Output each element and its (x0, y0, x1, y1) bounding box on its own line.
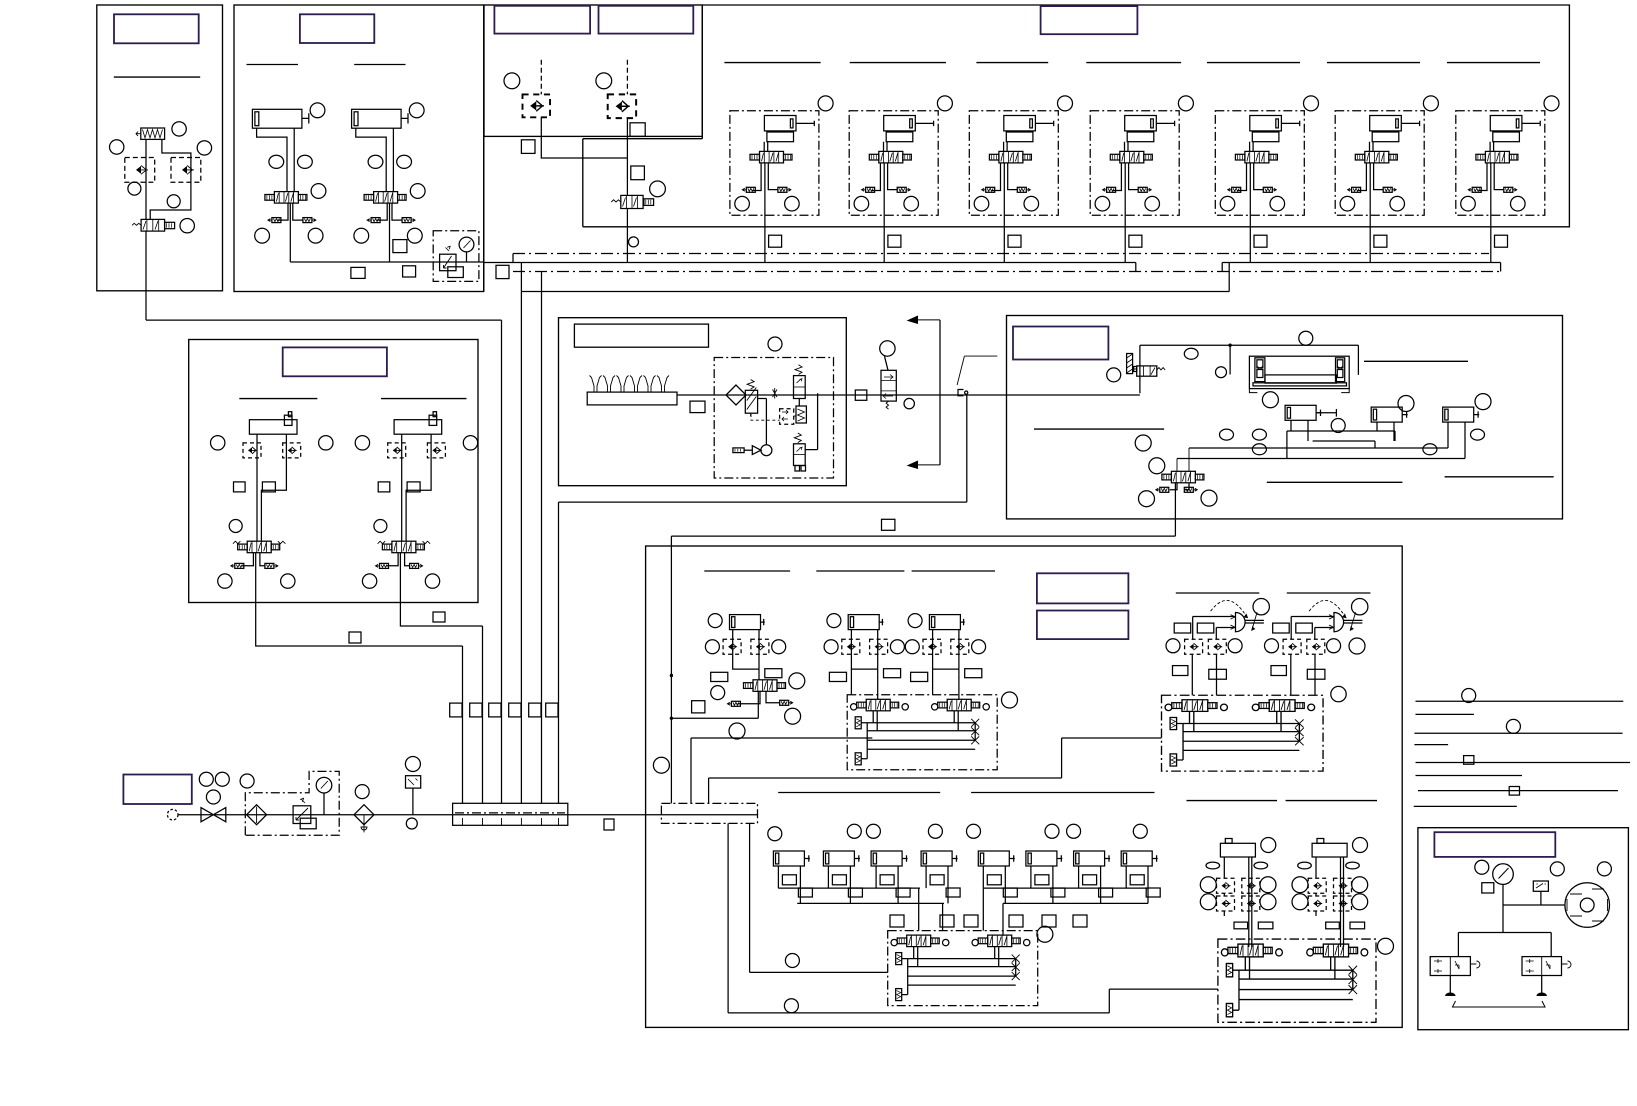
supply line from box3 frame down to bus (483, 136, 485, 291)
vacuum unit V1 (1166, 599, 1269, 696)
row cylinder R2 (823, 851, 860, 866)
slide rail (1253, 383, 1347, 386)
balloon (1378, 938, 1394, 954)
square marker (1482, 883, 1494, 893)
square marker (403, 266, 416, 277)
wire valve output (145, 231, 147, 320)
legend row 1 (1416, 700, 1624, 702)
left quad piping (778, 866, 926, 888)
legend row 3 (1414, 732, 1622, 734)
arrow lower (908, 461, 940, 469)
regulator (293, 806, 311, 824)
balloon (1107, 368, 1121, 382)
vertical unit W1 (1200, 838, 1276, 943)
speed controller check box right (171, 158, 201, 183)
wire valve output to bus (626, 209, 628, 263)
title block middle-center box (black) (574, 324, 708, 347)
label line box1 (114, 76, 200, 78)
shut-off valve (201, 808, 226, 822)
roller lever valve (1137, 366, 1157, 376)
tap drop line (559, 395, 967, 502)
cylinder unit U7 (1456, 96, 1559, 263)
valve V1 (141, 219, 165, 231)
feed line up and across (1140, 345, 1359, 393)
nozzle manifold block (587, 392, 677, 405)
middle-center box frame (559, 318, 847, 486)
balloon (110, 140, 124, 154)
slide feed line (671, 483, 1175, 536)
cylinder unit U2 (849, 96, 952, 263)
cylinder unit U4 (1090, 96, 1193, 263)
square marker (496, 265, 509, 278)
valve left (1430, 957, 1470, 976)
spring return actuator A1 (141, 128, 165, 139)
bottom big box frame (646, 546, 1403, 1027)
small manifold dash-dot box (661, 803, 757, 823)
legend row 2 (1416, 713, 1474, 715)
riser R1 (462, 646, 464, 803)
check unit right (608, 94, 636, 118)
wire right check down (626, 117, 628, 195)
cylinder unit U1 (730, 96, 833, 263)
gauge (316, 777, 332, 793)
balloon (405, 757, 420, 772)
lower feed middle (750, 823, 888, 972)
T1 valve output (757, 691, 759, 718)
cylinder piping (1291, 420, 1465, 458)
square marker (393, 240, 407, 253)
square marker (433, 612, 445, 622)
row cylinder R5 (978, 851, 1015, 866)
square markers (890, 915, 904, 927)
branch to trio valve (671, 717, 758, 719)
check unit left (523, 94, 551, 117)
label lines middle-right box (1034, 361, 1554, 482)
balloon (1184, 348, 1198, 359)
station box 3 frame (484, 5, 702, 136)
filter (726, 385, 746, 405)
bus solid line segment 1 (484, 262, 1136, 264)
balloon (206, 790, 220, 804)
bus boundary dash-dot upper (513, 253, 1489, 255)
square marker (692, 701, 705, 713)
middle-left box frame (189, 340, 478, 603)
T2 drops to manifold (851, 669, 877, 699)
pilot dashed box (780, 409, 794, 424)
square marker (631, 166, 645, 180)
junction dots (670, 717, 673, 720)
nozzles (590, 376, 602, 393)
wire actuator right branch (150, 139, 191, 219)
balloon (197, 141, 211, 155)
wire M2 output (400, 603, 482, 627)
small cylinder unit T3 (905, 614, 985, 682)
balloons around cylinders (1262, 392, 1278, 408)
bus solid line lower (521, 291, 1229, 293)
station box 2 frame (234, 5, 484, 292)
square marker (521, 140, 535, 154)
label lines bottom box trio (704, 570, 995, 572)
riser R4 (520, 292, 522, 804)
title block bottom-right box (1434, 832, 1555, 857)
cylinder C2 (1371, 407, 1408, 422)
cylinder unit U6 (1335, 96, 1438, 263)
small cylinder unit T1 (705, 614, 785, 682)
lower valve (794, 444, 806, 466)
title block box3 left (494, 6, 590, 34)
balloons around T1 valve (711, 686, 725, 700)
exhaust pads (1450, 976, 1541, 995)
balloon (504, 73, 520, 89)
cylinder circuit M2 (355, 412, 478, 603)
lubricator (354, 805, 374, 825)
regulator dash-dot box (433, 231, 479, 282)
vacuum unit V2 (1265, 599, 1368, 696)
relief valve (794, 376, 806, 399)
lower feed left (728, 823, 1218, 1013)
filter (247, 805, 267, 825)
wire actuator to valve (145, 139, 147, 219)
cylinder circuit M1 (211, 412, 334, 603)
balloon (729, 723, 745, 739)
bus verticals (513, 254, 1501, 292)
middle-right box frame (1007, 316, 1563, 519)
balloon small (629, 237, 639, 247)
main supply line (178, 814, 758, 816)
title block box1 (114, 14, 199, 43)
pump motor (1565, 883, 1610, 928)
balloons (1037, 926, 1053, 942)
balloons (1149, 458, 1165, 474)
pressure switch (1533, 881, 1548, 891)
valve right (1522, 957, 1562, 976)
regulator (440, 254, 456, 271)
arrow upper (908, 316, 940, 324)
cylinder unit U3 (969, 96, 1072, 263)
title block bottom box upper (1037, 573, 1129, 603)
legend row 6 (1416, 775, 1523, 777)
row cylinder R4 (921, 851, 958, 866)
slide unit frame (1249, 356, 1349, 388)
title block box3 right (599, 6, 694, 34)
riser R5 (541, 272, 543, 804)
square marker (351, 267, 365, 278)
T3 drops to manifold (933, 669, 959, 699)
gauge (459, 237, 474, 252)
balloon (180, 219, 194, 233)
arrow trunk (939, 320, 941, 465)
restrictor mark on line (773, 388, 778, 399)
label lines bottom box right duo (1187, 800, 1378, 802)
balloon (240, 774, 254, 788)
supply valve (1162, 471, 1204, 483)
title block bottom box lower (1037, 611, 1129, 640)
station box 1 frame (97, 5, 223, 291)
drops to manifold (1249, 942, 1344, 947)
balloon (167, 195, 180, 208)
FRL dash-dot box (245, 771, 339, 835)
cylinder circuit B2 (352, 103, 426, 262)
row cylinder R6 (1026, 851, 1063, 866)
balloons above row (768, 827, 782, 841)
legend row 4 (1414, 744, 1448, 746)
top-right stations box frame (583, 5, 1570, 227)
balloon (650, 181, 666, 197)
quick coupling tap (958, 390, 964, 396)
balloon (1002, 692, 1018, 708)
regulator (745, 390, 757, 413)
small cylinder unit T2 (824, 614, 904, 682)
cylinder C1 (1285, 405, 1322, 420)
label line box2 b (354, 64, 405, 66)
main line (677, 394, 1140, 396)
label lines middle-left box (239, 398, 466, 400)
cylinder circuit B1 (252, 103, 326, 262)
riser R2 (482, 626, 484, 803)
fittings under row (782, 875, 796, 885)
slide left stack (1255, 358, 1265, 382)
venturi circle with nozzle (761, 445, 772, 456)
square marker (349, 632, 361, 643)
T1 valve (744, 680, 786, 692)
riser R3 with box1 feed (146, 320, 502, 803)
piping (1502, 884, 1504, 932)
vertical unit W2 (1292, 838, 1368, 943)
square marker (630, 123, 645, 137)
bus solid line segment 2 (1222, 262, 1500, 264)
row cylinder R8 (1121, 851, 1158, 866)
balloon (768, 337, 782, 351)
lower manifold box (888, 931, 1038, 1006)
balloon (215, 772, 229, 786)
branch line y778 (709, 738, 1162, 803)
trio manifold box (847, 695, 997, 770)
riser squares (450, 703, 462, 717)
duo manifold box (1162, 695, 1324, 771)
right duo manifold box (1218, 939, 1376, 1022)
square marker on main line (855, 390, 867, 400)
cylinder C3 (1443, 407, 1480, 422)
slide bar (1265, 375, 1336, 383)
balloon small (406, 818, 417, 829)
row cylinder R3 (871, 851, 908, 866)
title block top-right box (1041, 6, 1138, 34)
hand lever valve (881, 370, 896, 401)
legend row 5 (1416, 762, 1631, 764)
right quad piping (983, 866, 1126, 888)
bottom-right box frame (1418, 828, 1629, 1030)
square marker (690, 401, 705, 413)
wire left check to junction (541, 117, 627, 158)
row cylinder R1 (773, 851, 810, 866)
square marker (882, 519, 895, 530)
supply manifold block (453, 803, 568, 825)
collector line to regulator (290, 261, 484, 263)
row cylinder R7 (1074, 851, 1111, 866)
balloon (128, 182, 141, 195)
dashed feed lines (541, 60, 627, 95)
branch line y738 (691, 738, 872, 803)
gauge (1493, 864, 1514, 885)
balloon on line (1299, 331, 1313, 345)
riser R6 (558, 502, 560, 803)
label lines bottom box lower row (778, 792, 1154, 794)
title block air supply (123, 775, 191, 805)
station box 3 sub-frame (583, 139, 703, 227)
balloon (1216, 367, 1227, 378)
label line box2 a (247, 64, 299, 66)
balloons (1475, 860, 1489, 874)
bracket (1453, 1001, 1546, 1007)
balloon (172, 122, 186, 136)
junction dot (1228, 344, 1231, 347)
riser R7 from slide valve line (670, 536, 672, 803)
cylinder unit U5 (1215, 96, 1318, 263)
label lines bottom box duo (1176, 592, 1371, 594)
title block middle-left box (283, 347, 387, 376)
filter-regulator dash-dot box (714, 358, 833, 479)
title block box2 (300, 14, 374, 43)
legend row 8 (1414, 805, 1517, 807)
slide right stack (1336, 358, 1345, 382)
speed controller check box left (125, 158, 155, 183)
wire M1 output (256, 603, 463, 647)
valve V3 (621, 195, 643, 208)
inlet port (167, 809, 178, 820)
balloon (596, 73, 612, 89)
bus boundary dash-dot lower (513, 271, 1501, 273)
label lines top-right units (724, 62, 1540, 64)
wall mount (1127, 354, 1133, 374)
balloon (355, 785, 369, 799)
branch down (1229, 345, 1231, 374)
balloon small (904, 398, 914, 408)
balloon (199, 772, 213, 786)
legend row 7 (1418, 790, 1618, 792)
balloon (1331, 686, 1346, 701)
square marker (604, 819, 614, 830)
balloon (653, 757, 669, 773)
title block middle-right box (1013, 327, 1108, 360)
pressure switch (406, 776, 421, 788)
balloon (1349, 638, 1365, 654)
